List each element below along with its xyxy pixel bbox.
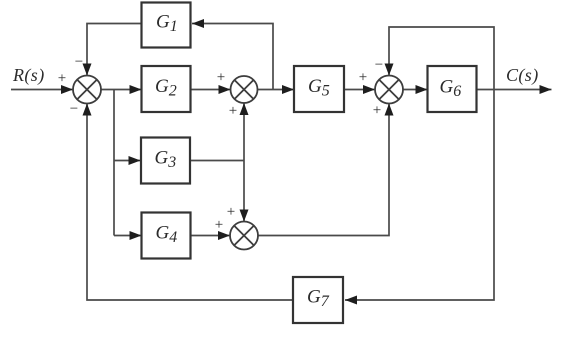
svg-text:−: −	[75, 54, 83, 70]
block G5	[294, 66, 344, 112]
svg-text:+: +	[217, 70, 225, 86]
wire G7 output left then up into J1 bottom	[87, 104, 293, 301]
summing junction J2	[231, 76, 258, 103]
wire R(s) input into summing junction J1	[11, 89, 73, 91]
svg-text:+: +	[359, 70, 367, 86]
block G2	[142, 66, 191, 112]
svg-text:+: +	[373, 103, 381, 119]
summing junction J3	[375, 76, 403, 104]
svg-text:+: +	[215, 217, 223, 233]
svg-text:R(s): R(s)	[12, 65, 45, 86]
wire G3 output right to branch node	[191, 160, 245, 162]
wire branch into G3	[114, 160, 141, 162]
svg-text:−: −	[375, 57, 383, 73]
wire G4 output into J4	[191, 235, 231, 237]
wire J4 output right then up into J3 bottom	[258, 104, 389, 236]
block G6	[428, 66, 477, 112]
wire branch vertical from J1 output line down to G3/G4 rows	[113, 90, 115, 236]
wire J2 output into G5	[258, 89, 295, 91]
wire G1 output left then down into J1 top	[87, 24, 142, 76]
wire G3 branch up into J2 bottom	[243, 103, 245, 161]
wire G5 output into J3	[344, 89, 375, 91]
wire G2 output into J2	[191, 89, 231, 91]
svg-text:+: +	[229, 103, 237, 119]
wire J1 output to G2	[101, 89, 142, 91]
svg-text:+: +	[227, 204, 235, 220]
wire G3 branch down into J4 top	[243, 161, 245, 222]
summing junction J4	[230, 222, 258, 250]
svg-text:C(s): C(s)	[506, 65, 539, 86]
svg-text:+: +	[58, 71, 66, 87]
wire output tap up and left then down into J3 top (unity feedback)	[389, 27, 494, 90]
summing junction J1	[73, 76, 101, 104]
wire tap from J2 output up and left into G1	[192, 24, 273, 90]
wire G6 output to C(s) arrow	[477, 89, 552, 91]
svg-text:−: −	[70, 101, 78, 117]
wire branch into G4	[114, 235, 142, 237]
wire J3 output into G6	[403, 89, 428, 91]
block G1	[142, 3, 191, 48]
wire output tap down then left into G7 input	[345, 90, 494, 301]
block G7	[293, 277, 343, 323]
block G4	[142, 213, 191, 259]
block G3	[141, 138, 190, 184]
